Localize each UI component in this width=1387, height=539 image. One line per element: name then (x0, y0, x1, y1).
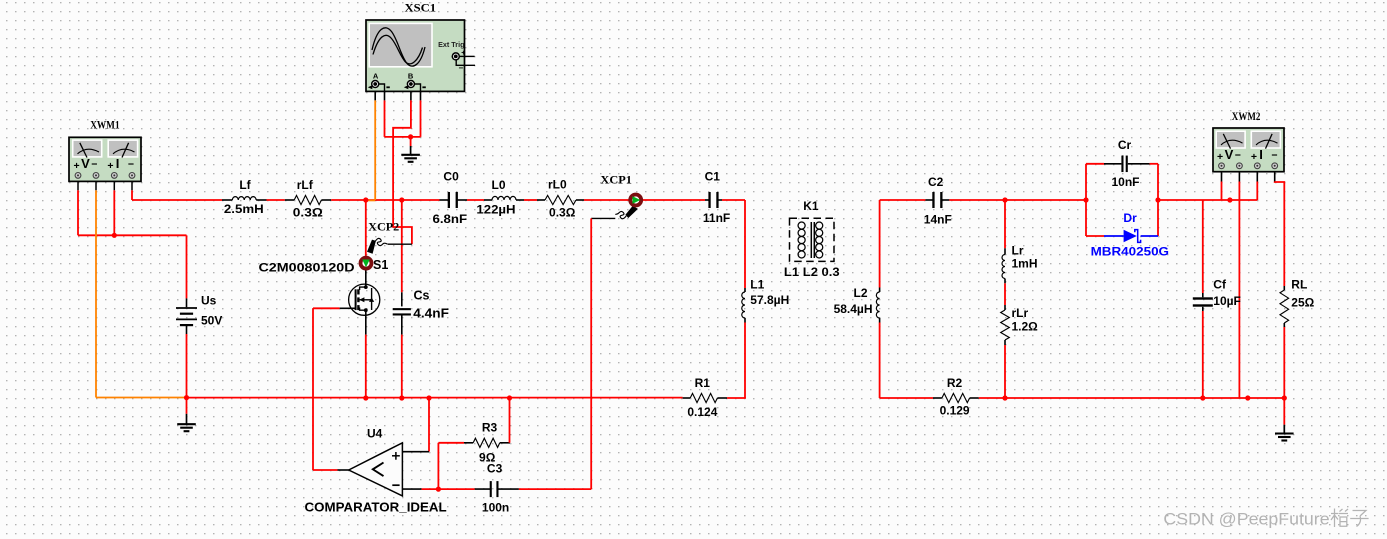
svg-text:K1: K1 (803, 199, 819, 213)
svg-text:CSDN @PeepFuture: CSDN @PeepFuture (1163, 510, 1329, 529)
svg-text:C3: C3 (487, 462, 503, 476)
svg-text:0.129: 0.129 (940, 403, 970, 417)
svg-text:−: − (128, 158, 134, 170)
svg-text:0.124: 0.124 (687, 405, 717, 419)
svg-text:L1: L1 (750, 278, 764, 292)
svg-text:rLf: rLf (297, 178, 314, 192)
svg-text:C2M0080120D: C2M0080120D (259, 261, 355, 275)
svg-text:B: B (408, 71, 414, 80)
svg-text:C1: C1 (705, 170, 721, 184)
svg-text:Us: Us (201, 293, 217, 307)
svg-text:25Ω: 25Ω (1291, 295, 1314, 309)
svg-text:I: I (116, 156, 120, 171)
svg-text:Dr: Dr (1123, 211, 1137, 225)
svg-text:L0: L0 (491, 178, 505, 192)
svg-text:11nF: 11nF (703, 211, 730, 225)
svg-text:122µH: 122µH (476, 202, 515, 216)
svg-text:Ext Trig: Ext Trig (438, 40, 464, 49)
svg-text:−: − (1235, 149, 1241, 161)
svg-text:U4: U4 (367, 427, 383, 441)
svg-text:4.4nF: 4.4nF (413, 306, 449, 320)
svg-text:−: − (91, 158, 97, 170)
svg-text:MBR40250G: MBR40250G (1091, 245, 1169, 259)
svg-text:XSC1: XSC1 (405, 3, 437, 15)
svg-text:2.5mH: 2.5mH (224, 202, 264, 216)
svg-text:S1: S1 (373, 258, 388, 272)
svg-text:57.8µH: 57.8µH (750, 293, 789, 307)
svg-text:14nF: 14nF (924, 212, 952, 226)
svg-text:1mH: 1mH (1012, 256, 1038, 270)
svg-text:6.8nF: 6.8nF (433, 212, 468, 226)
svg-text:I: I (1259, 147, 1263, 162)
svg-text:0.3Ω: 0.3Ω (293, 206, 323, 220)
svg-text:0.3Ω: 0.3Ω (549, 205, 576, 219)
svg-text:10µF: 10µF (1213, 294, 1241, 308)
svg-text:R2: R2 (947, 376, 963, 390)
svg-text:XCP1: XCP1 (600, 174, 632, 186)
svg-text:RL: RL (1291, 278, 1307, 292)
svg-text:+: + (1251, 151, 1257, 163)
svg-text:A: A (373, 71, 379, 80)
svg-text:C0: C0 (443, 170, 459, 184)
svg-text:−: − (1271, 149, 1277, 161)
svg-text:+: + (74, 160, 80, 172)
svg-text:XCP2: XCP2 (368, 222, 399, 234)
svg-text:1.2Ω: 1.2Ω (1012, 320, 1039, 334)
svg-text:−: − (458, 64, 463, 73)
svg-text:COMPARATOR_IDEAL: COMPARATOR_IDEAL (305, 500, 447, 515)
svg-text:R3: R3 (482, 420, 498, 434)
svg-text:Cr: Cr (1118, 138, 1132, 152)
svg-text:50V: 50V (201, 314, 222, 328)
svg-text:XWM2: XWM2 (1232, 111, 1261, 123)
svg-text:L1 L2 0.3: L1 L2 0.3 (784, 265, 840, 279)
svg-text:Cf: Cf (1213, 277, 1227, 291)
svg-text:Lf: Lf (239, 178, 251, 192)
svg-text:V: V (81, 156, 90, 171)
svg-text:C2: C2 (928, 175, 944, 189)
svg-text:+: + (107, 160, 113, 172)
svg-text:100n: 100n (482, 501, 509, 515)
svg-text:+: + (461, 50, 465, 57)
svg-text:rLr: rLr (1012, 306, 1029, 320)
svg-text:XWM1: XWM1 (90, 120, 120, 132)
svg-text:58.4µH: 58.4µH (834, 302, 873, 316)
svg-text:L2: L2 (853, 286, 867, 300)
svg-text:10nF: 10nF (1111, 175, 1139, 189)
svg-text:V: V (1225, 147, 1234, 162)
svg-text:Cs: Cs (414, 289, 430, 303)
svg-text:+: + (1217, 151, 1223, 163)
svg-text:rL0: rL0 (548, 177, 567, 191)
svg-text:R1: R1 (695, 376, 711, 390)
